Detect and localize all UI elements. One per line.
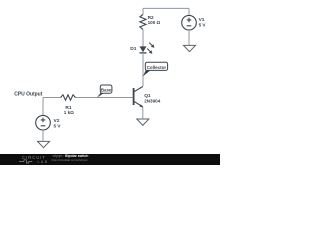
svg-text:Base: Base xyxy=(101,87,112,92)
svg-text:1 kΩ: 1 kΩ xyxy=(64,110,74,115)
wire xyxy=(42,130,44,141)
label V2 5 V xyxy=(54,118,62,128)
svg-text:CPU Output: CPU Output xyxy=(14,92,42,98)
ground xyxy=(137,119,149,125)
resistor R1 xyxy=(61,95,76,100)
ground xyxy=(38,141,50,147)
net flag Collector xyxy=(143,62,168,76)
resistor R2 xyxy=(140,14,146,29)
svg-text:D1: D1 xyxy=(130,46,136,52)
LED D1 xyxy=(140,43,155,54)
label V1 5 V xyxy=(199,17,207,27)
footer info text xyxy=(52,154,89,162)
wire xyxy=(143,7,189,9)
wire xyxy=(142,107,144,118)
svg-text:http://circuitlab.com/c/wfyqm: http://circuitlab.com/c/wfyqm xyxy=(52,158,89,162)
svg-text:Collector: Collector xyxy=(147,65,167,70)
label Q1 2N3904 xyxy=(144,93,161,104)
svg-text:100 Ω: 100 Ω xyxy=(148,20,161,25)
svg-text:5 V: 5 V xyxy=(54,123,62,128)
wire xyxy=(42,98,44,116)
wire xyxy=(188,30,190,45)
wire xyxy=(142,53,144,87)
transistor Q1 xyxy=(134,87,143,107)
voltage source V1 xyxy=(182,15,197,30)
ground xyxy=(184,45,196,51)
wire xyxy=(142,29,144,46)
label R1 1 kΩ xyxy=(64,105,74,115)
net flag Base xyxy=(97,85,112,98)
footer bar xyxy=(0,154,220,165)
CircuitLab logo xyxy=(19,155,49,164)
voltage source V2 xyxy=(36,115,51,130)
label R2 100 Ω xyxy=(148,15,161,25)
svg-text:LAB: LAB xyxy=(38,160,49,164)
svg-text:2N3904: 2N3904 xyxy=(144,99,161,104)
wire xyxy=(43,97,61,99)
wire xyxy=(188,8,190,15)
wire xyxy=(142,8,144,14)
wire xyxy=(76,97,133,99)
svg-text:5 V: 5 V xyxy=(199,22,207,27)
